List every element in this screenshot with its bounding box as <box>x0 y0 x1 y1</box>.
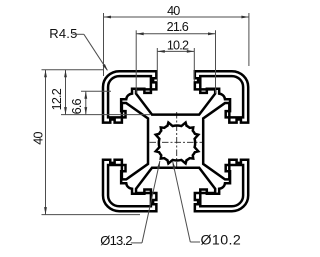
svg-text:12.2: 12.2 <box>50 88 64 110</box>
svg-text:6.6: 6.6 <box>70 98 84 114</box>
svg-text:Ø10.2: Ø10.2 <box>201 233 242 249</box>
svg-text:Ø13.2: Ø13.2 <box>100 233 132 248</box>
svg-text:40: 40 <box>167 4 180 18</box>
svg-text:40: 40 <box>31 132 45 145</box>
svg-text:R4.5: R4.5 <box>49 26 77 41</box>
svg-text:21.6: 21.6 <box>167 20 189 34</box>
svg-text:10.2: 10.2 <box>167 39 189 53</box>
